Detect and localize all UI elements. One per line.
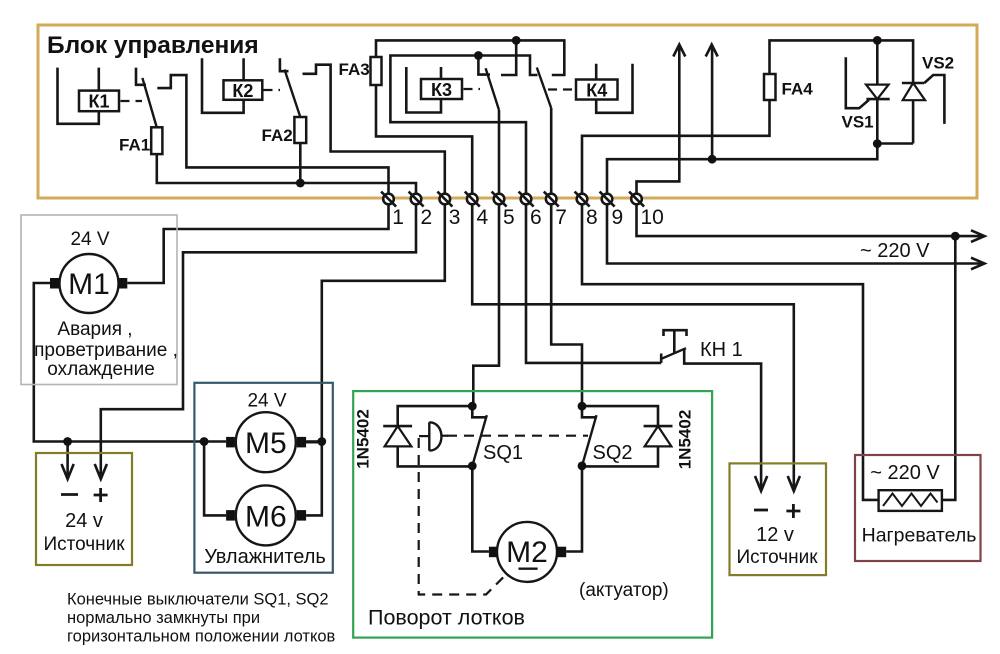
svg-text:М5: М5 — [245, 427, 287, 460]
svg-text:24 v: 24 v — [65, 510, 103, 532]
svg-text:Источник: Источник — [736, 547, 818, 568]
svg-text:Поворот лотков: Поворот лотков — [368, 606, 525, 630]
svg-text:охлаждение: охлаждение — [47, 359, 155, 380]
svg-text:~ 220 V: ~ 220 V — [870, 462, 940, 484]
svg-text:~ 220 V: ~ 220 V — [860, 240, 930, 262]
svg-text:М6: М6 — [245, 501, 287, 534]
svg-text:12 v: 12 v — [756, 524, 794, 546]
svg-text:горизонтальном положении лотко: горизонтальном положении лотков — [67, 628, 336, 646]
svg-text:Авария ,: Авария , — [57, 319, 132, 340]
svg-text:1N5402: 1N5402 — [354, 409, 373, 469]
svg-text:Нагреватель: Нагреватель — [862, 525, 977, 547]
svg-text:К1: К1 — [89, 92, 110, 112]
svg-text:нормально замкнуты при: нормально замкнуты при — [67, 609, 260, 627]
svg-text:Блок управления: Блок управления — [47, 32, 259, 59]
svg-text:(актуатор): (актуатор) — [579, 580, 669, 601]
svg-text:2: 2 — [421, 206, 433, 229]
svg-text:3: 3 — [449, 206, 461, 229]
svg-text:4: 4 — [477, 206, 489, 229]
svg-text:Источник: Источник — [43, 534, 125, 555]
svg-text:M1: M1 — [68, 268, 110, 301]
svg-text:К3: К3 — [431, 80, 452, 100]
svg-text:1N5402: 1N5402 — [676, 410, 695, 470]
svg-text:9: 9 — [612, 206, 624, 229]
svg-text:Конечные выключатели SQ1, SQ2: Конечные выключатели SQ1, SQ2 — [67, 591, 329, 609]
svg-text:FA4: FA4 — [782, 80, 814, 99]
svg-text:VS2: VS2 — [922, 54, 954, 73]
svg-text:1: 1 — [392, 206, 404, 229]
svg-text:7: 7 — [555, 206, 567, 229]
svg-text:6: 6 — [530, 206, 542, 229]
svg-text:КН 1: КН 1 — [700, 339, 743, 361]
svg-text:VS1: VS1 — [842, 113, 874, 132]
svg-text:10: 10 — [641, 206, 664, 229]
svg-text:5: 5 — [503, 206, 515, 229]
svg-text:8: 8 — [586, 206, 598, 229]
svg-text:24 V: 24 V — [70, 229, 109, 250]
svg-text:М2: М2 — [506, 536, 548, 569]
svg-text:FA3: FA3 — [339, 60, 370, 79]
svg-text:SQ1: SQ1 — [483, 442, 523, 464]
svg-text:К2: К2 — [232, 81, 253, 101]
svg-text:проветривание ,: проветривание , — [34, 340, 178, 361]
svg-text:Увлажнитель: Увлажнитель — [204, 546, 326, 568]
svg-text:24 V: 24 V — [247, 391, 286, 412]
svg-text:К4: К4 — [586, 81, 607, 101]
svg-text:FA2: FA2 — [262, 126, 293, 145]
svg-text:SQ2: SQ2 — [593, 442, 633, 464]
svg-text:FA1: FA1 — [119, 136, 150, 155]
